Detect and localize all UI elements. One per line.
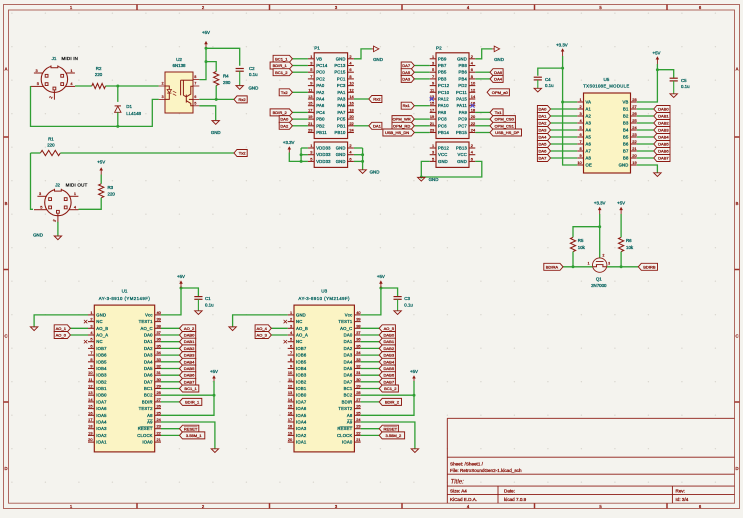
svg-text:GND: GND bbox=[370, 170, 380, 175]
svg-text:C: C bbox=[735, 334, 738, 339]
svg-text:1: 1 bbox=[310, 54, 312, 59]
svg-text:3: 3 bbox=[608, 262, 610, 266]
svg-text:Rev:: Rev: bbox=[676, 489, 685, 494]
svg-text:Sheet: /Sheet1 /: Sheet: /Sheet1 / bbox=[450, 461, 484, 466]
svg-text:17: 17 bbox=[88, 417, 92, 422]
svg-text:AO_B: AO_B bbox=[296, 326, 308, 331]
svg-text:PA5: PA5 bbox=[337, 103, 346, 108]
svg-text:9: 9 bbox=[90, 364, 92, 369]
svg-text:3.58M_1: 3.58M_1 bbox=[186, 433, 202, 438]
svg-text:GND: GND bbox=[429, 177, 439, 182]
svg-text:PA7: PA7 bbox=[337, 110, 346, 115]
svg-text:8: 8 bbox=[349, 74, 351, 79]
svg-text:DAB1: DAB1 bbox=[658, 114, 669, 119]
svg-text:U2: U2 bbox=[176, 57, 182, 62]
svg-text:PA8: PA8 bbox=[438, 110, 447, 115]
svg-text:PB15: PB15 bbox=[456, 130, 468, 135]
svg-text:DAB3: DAB3 bbox=[658, 128, 669, 133]
wire bbox=[361, 394, 414, 396]
svg-text:DA4: DA4 bbox=[144, 359, 153, 364]
svg-text:5: 5 bbox=[310, 67, 312, 72]
net label DAB1 bbox=[161, 341, 180, 343]
svg-text:Tx1: Tx1 bbox=[495, 110, 502, 115]
svg-text:B7: B7 bbox=[623, 149, 629, 154]
net label DA3 bbox=[414, 78, 429, 80]
no-connect bbox=[284, 320, 287, 323]
svg-text:+3.3V: +3.3V bbox=[556, 43, 568, 48]
svg-text:9: 9 bbox=[580, 153, 582, 158]
svg-text:5: 5 bbox=[40, 204, 42, 209]
svg-text:IOA6: IOA6 bbox=[96, 406, 107, 411]
wire bbox=[215, 86, 217, 100]
svg-text:CLOCK: CLOCK bbox=[137, 433, 152, 438]
net label DA4 bbox=[551, 136, 578, 138]
svg-text:GND: GND bbox=[619, 163, 629, 168]
svg-text:VA: VA bbox=[586, 100, 592, 105]
svg-text:DA2: DA2 bbox=[344, 346, 353, 351]
svg-text:23: 23 bbox=[356, 424, 360, 429]
svg-text:25: 25 bbox=[157, 410, 161, 415]
svg-text:DA4: DA4 bbox=[494, 77, 503, 82]
svg-text:Title:: Title: bbox=[451, 479, 465, 486]
svg-text:6: 6 bbox=[580, 132, 582, 137]
net label DAB3 bbox=[361, 354, 380, 356]
power +5V bbox=[213, 378, 215, 381]
svg-text:DAB4: DAB4 bbox=[384, 359, 395, 364]
connector P2 bbox=[436, 53, 469, 139]
svg-text:6: 6 bbox=[349, 156, 351, 161]
net label Rx1 bbox=[414, 105, 429, 107]
svg-text:GND: GND bbox=[373, 57, 383, 62]
net label DAB0 bbox=[361, 334, 380, 336]
wire bbox=[106, 85, 159, 87]
net label BC1_1 bbox=[161, 388, 180, 390]
wire bbox=[31, 86, 159, 126]
svg-text:IOB2: IOB2 bbox=[296, 379, 307, 384]
svg-text:IOA7: IOA7 bbox=[296, 399, 307, 404]
svg-text:22: 22 bbox=[471, 121, 475, 126]
svg-text:23: 23 bbox=[157, 424, 161, 429]
svg-text:39: 39 bbox=[356, 317, 360, 322]
connector P1 bbox=[314, 53, 347, 139]
svg-text:6: 6 bbox=[471, 156, 473, 161]
wire bbox=[354, 49, 372, 59]
svg-text:VCC: VCC bbox=[458, 152, 467, 157]
svg-text:B6: B6 bbox=[623, 142, 629, 147]
svg-text:38: 38 bbox=[157, 323, 161, 328]
svg-text:PA3: PA3 bbox=[337, 97, 346, 102]
svg-text:22: 22 bbox=[349, 121, 353, 126]
svg-text:IOA2: IOA2 bbox=[296, 433, 307, 438]
svg-text:PB3: PB3 bbox=[438, 76, 447, 81]
net label DAB4 bbox=[161, 361, 180, 363]
svg-text:33: 33 bbox=[356, 357, 360, 362]
resistor R6 bbox=[619, 237, 624, 251]
svg-text:AO_C: AO_C bbox=[140, 326, 152, 331]
svg-text:9: 9 bbox=[290, 364, 292, 369]
svg-text:R5: R5 bbox=[578, 238, 584, 243]
net label DAB7 bbox=[161, 381, 180, 383]
svg-text:3.58M_2: 3.58M_2 bbox=[386, 433, 402, 438]
svg-text:DA5: DA5 bbox=[538, 142, 547, 147]
svg-text:9: 9 bbox=[432, 81, 434, 86]
svg-text:MIDI OUT: MIDI OUT bbox=[66, 182, 88, 187]
svg-text:IOB2: IOB2 bbox=[96, 379, 107, 384]
svg-text:3: 3 bbox=[310, 150, 312, 155]
svg-text:38: 38 bbox=[356, 323, 360, 328]
wire bbox=[57, 222, 59, 236]
svg-text:220: 220 bbox=[108, 191, 116, 196]
svg-text:1: 1 bbox=[432, 143, 434, 148]
svg-text:AO_2: AO_2 bbox=[184, 326, 195, 331]
svg-text:PB13: PB13 bbox=[456, 146, 468, 151]
svg-text:GND: GND bbox=[336, 152, 346, 157]
svg-text:19: 19 bbox=[430, 114, 434, 119]
svg-text:DAB0: DAB0 bbox=[658, 107, 669, 112]
svg-text:2: 2 bbox=[471, 54, 473, 59]
svg-text:Vcc: Vcc bbox=[145, 312, 153, 317]
svg-text:IOA5: IOA5 bbox=[96, 413, 107, 418]
net label DA7 bbox=[551, 157, 578, 159]
svg-text:IOB4: IOB4 bbox=[96, 366, 107, 371]
svg-text:19: 19 bbox=[632, 160, 636, 165]
svg-text:2: 2 bbox=[162, 82, 164, 86]
transistor Q1 2N7000 bbox=[593, 258, 607, 272]
net label BDIR_2 bbox=[361, 401, 380, 403]
junction bbox=[420, 176, 423, 179]
svg-text:DA6: DA6 bbox=[144, 373, 153, 378]
wire bbox=[289, 153, 301, 162]
net label DAB7 bbox=[361, 381, 380, 383]
svg-text:AO_5: AO_5 bbox=[384, 326, 395, 331]
svg-text:18: 18 bbox=[88, 424, 92, 429]
svg-text:1: 1 bbox=[310, 143, 312, 148]
svg-text:GND: GND bbox=[249, 85, 259, 90]
ground bbox=[236, 86, 243, 90]
svg-text:2N7000: 2N7000 bbox=[591, 283, 607, 288]
net label BDIR_1 bbox=[161, 401, 180, 403]
svg-text:IOB0: IOB0 bbox=[96, 393, 107, 398]
resistor R3 bbox=[99, 184, 104, 198]
svg-text:IOB4: IOB4 bbox=[296, 366, 307, 371]
wire bbox=[161, 288, 181, 315]
svg-text:17: 17 bbox=[430, 107, 434, 112]
svg-text:2: 2 bbox=[349, 54, 351, 59]
net label OPM_CS0 bbox=[475, 118, 490, 120]
wire bbox=[300, 148, 302, 161]
resistor R1 bbox=[40, 150, 60, 155]
svg-text:VB: VB bbox=[623, 100, 629, 105]
svg-text:BDIR: BDIR bbox=[142, 399, 153, 404]
net label DAB4 bbox=[361, 361, 380, 363]
wire bbox=[301, 160, 308, 162]
wire bbox=[563, 101, 578, 103]
svg-text:P2: P2 bbox=[436, 46, 442, 51]
wire bbox=[361, 381, 414, 415]
net label OPM_RD bbox=[414, 125, 429, 127]
svg-text:GND: GND bbox=[33, 232, 43, 237]
svg-text:C: C bbox=[4, 334, 7, 339]
svg-text:29: 29 bbox=[356, 384, 360, 389]
svg-text:PC8: PC8 bbox=[438, 117, 447, 122]
wire bbox=[572, 252, 574, 267]
wire bbox=[421, 161, 482, 177]
svg-text:PA2: PA2 bbox=[316, 90, 325, 95]
svg-text:IOA7: IOA7 bbox=[96, 399, 107, 404]
net label DAB3 bbox=[161, 354, 180, 356]
svg-text:IOB5: IOB5 bbox=[96, 359, 107, 364]
PSG U1 AY-3-8910 bbox=[94, 305, 154, 452]
svg-text:DAB1: DAB1 bbox=[184, 339, 195, 344]
ground bbox=[195, 311, 202, 315]
capacitor C4 bbox=[534, 76, 542, 78]
net label BC1_2 bbox=[361, 388, 380, 390]
svg-text:File: RetroSoundGen2-1.kicad_s: File: RetroSoundGen2-1.kicad_sch bbox=[450, 468, 522, 473]
svg-text:Vcc: Vcc bbox=[345, 312, 353, 317]
svg-text:PC5: PC5 bbox=[337, 117, 346, 122]
wire bbox=[563, 266, 593, 268]
svg-text:LL4148: LL4148 bbox=[126, 111, 141, 116]
svg-text:KiCad E.D.A.: KiCad E.D.A. bbox=[450, 497, 477, 502]
svg-text:35: 35 bbox=[356, 343, 360, 348]
wire bbox=[381, 288, 398, 296]
ground bbox=[394, 311, 401, 315]
ground bbox=[30, 327, 37, 331]
net label DA0 bbox=[292, 118, 308, 120]
wire bbox=[161, 422, 215, 449]
svg-text:DAB4: DAB4 bbox=[184, 359, 195, 364]
svg-text:GND: GND bbox=[336, 146, 346, 151]
svg-text:22: 22 bbox=[157, 430, 161, 435]
svg-text:TEST2: TEST2 bbox=[139, 406, 154, 411]
svg-text:DAB2: DAB2 bbox=[184, 346, 195, 351]
svg-text:3: 3 bbox=[432, 61, 434, 66]
svg-text:DA5: DA5 bbox=[144, 366, 153, 371]
wire bbox=[117, 86, 119, 102]
svg-text:22: 22 bbox=[356, 430, 360, 435]
svg-text:1: 1 bbox=[74, 191, 76, 196]
svg-text:7: 7 bbox=[580, 139, 582, 144]
net label DAB5 bbox=[361, 368, 380, 370]
svg-text:220: 220 bbox=[47, 142, 55, 147]
junction bbox=[361, 153, 364, 156]
svg-text:VDD33: VDD33 bbox=[316, 159, 331, 164]
svg-text:PB1: PB1 bbox=[337, 123, 346, 128]
svg-text:3: 3 bbox=[290, 323, 292, 328]
svg-text:DA5: DA5 bbox=[402, 70, 411, 75]
svg-text:3: 3 bbox=[39, 191, 41, 196]
svg-text:32: 32 bbox=[157, 364, 161, 369]
svg-text:CLOCK: CLOCK bbox=[337, 433, 352, 438]
svg-text:28: 28 bbox=[157, 390, 161, 395]
svg-text:A: A bbox=[5, 67, 8, 72]
svg-text:IOB6: IOB6 bbox=[96, 353, 107, 358]
svg-text:27: 27 bbox=[356, 397, 360, 402]
svg-text:1: 1 bbox=[432, 54, 434, 59]
svg-text:28: 28 bbox=[356, 390, 360, 395]
junction bbox=[215, 98, 218, 101]
svg-text:37: 37 bbox=[356, 330, 360, 335]
wire bbox=[657, 70, 673, 78]
junction bbox=[213, 394, 216, 397]
svg-text:10k: 10k bbox=[626, 245, 634, 250]
svg-text:PA15: PA15 bbox=[456, 97, 467, 102]
svg-text:2: 2 bbox=[471, 143, 473, 148]
svg-text:R2: R2 bbox=[96, 66, 102, 71]
svg-text:0.1u: 0.1u bbox=[205, 303, 214, 308]
svg-text:DAB6: DAB6 bbox=[384, 373, 395, 378]
wire bbox=[620, 214, 622, 237]
svg-text:BC1_2: BC1_2 bbox=[275, 70, 288, 75]
svg-text:A9: A9 bbox=[347, 420, 353, 425]
svg-text:31: 31 bbox=[356, 370, 360, 375]
svg-text:13: 13 bbox=[308, 94, 312, 99]
svg-text:7: 7 bbox=[90, 350, 92, 355]
svg-text:RESET: RESET bbox=[337, 426, 352, 431]
svg-text:DAB7: DAB7 bbox=[658, 156, 669, 161]
svg-text:IOA3: IOA3 bbox=[296, 426, 307, 431]
wire bbox=[75, 85, 92, 87]
svg-text:IOB0: IOB0 bbox=[296, 393, 307, 398]
power flag GND bbox=[492, 48, 494, 50]
svg-text:Rx1: Rx1 bbox=[403, 103, 411, 108]
svg-text:21: 21 bbox=[308, 121, 312, 126]
junction bbox=[116, 85, 119, 88]
resistor R5 bbox=[570, 237, 575, 251]
svg-text:MIDI IN: MIDI IN bbox=[61, 56, 78, 61]
svg-text:5: 5 bbox=[432, 156, 434, 161]
svg-text:C2: C2 bbox=[249, 66, 255, 71]
svg-text:Rx2: Rx2 bbox=[238, 97, 246, 102]
wire bbox=[31, 153, 34, 209]
svg-text:23: 23 bbox=[632, 132, 636, 137]
svg-text:Rx2: Rx2 bbox=[373, 97, 381, 102]
net label DAB5 bbox=[161, 368, 180, 370]
svg-text:5: 5 bbox=[310, 156, 312, 161]
svg-text:B2: B2 bbox=[623, 114, 629, 119]
svg-text:IOB3: IOB3 bbox=[96, 373, 107, 378]
net label Tx2 bbox=[292, 91, 308, 93]
net label RESET bbox=[361, 428, 380, 430]
svg-text:1: 1 bbox=[70, 68, 72, 73]
net label DAB2 bbox=[637, 122, 654, 124]
svg-text:BDIR_2: BDIR_2 bbox=[385, 400, 400, 405]
svg-text:IOA3: IOA3 bbox=[96, 426, 107, 431]
svg-text:OPM_a0: OPM_a0 bbox=[492, 90, 509, 95]
net label DA2 bbox=[292, 125, 308, 127]
svg-text:A1: A1 bbox=[586, 107, 592, 112]
svg-text:B: B bbox=[5, 201, 8, 206]
junction bbox=[561, 67, 564, 70]
svg-text:DA6: DA6 bbox=[494, 70, 503, 75]
svg-text:VDD33: VDD33 bbox=[316, 152, 331, 157]
level shifter U5 TXS0108E_MODULE bbox=[584, 93, 631, 173]
svg-text:2: 2 bbox=[290, 317, 292, 322]
svg-text:17: 17 bbox=[288, 417, 292, 422]
svg-text:2: 2 bbox=[90, 317, 92, 322]
net label OPM_WR bbox=[414, 118, 429, 120]
svg-text:5: 5 bbox=[90, 337, 92, 342]
svg-text:DAB0: DAB0 bbox=[384, 333, 395, 338]
svg-text:PB11: PB11 bbox=[316, 130, 327, 135]
svg-text:23: 23 bbox=[308, 128, 312, 133]
svg-text:DA0: DA0 bbox=[144, 333, 153, 338]
capacitor C2 bbox=[236, 68, 244, 70]
junction bbox=[620, 265, 623, 268]
svg-text:26: 26 bbox=[632, 111, 636, 116]
net label AO_5 bbox=[361, 327, 380, 329]
svg-text:1: 1 bbox=[90, 310, 92, 315]
wire bbox=[117, 112, 119, 126]
svg-text:A9: A9 bbox=[147, 420, 153, 425]
wire bbox=[620, 252, 622, 267]
svg-text:NC: NC bbox=[96, 319, 102, 324]
net label RESET bbox=[161, 428, 180, 430]
svg-text:6: 6 bbox=[194, 95, 196, 99]
svg-text:8: 8 bbox=[90, 357, 92, 362]
svg-text:PC15: PC15 bbox=[334, 70, 346, 75]
power +5V bbox=[656, 59, 658, 64]
svg-text:PB4: PB4 bbox=[458, 76, 467, 81]
svg-text:IOA6: IOA6 bbox=[296, 406, 307, 411]
svg-text:1: 1 bbox=[290, 310, 292, 315]
svg-text:6: 6 bbox=[290, 343, 292, 348]
svg-text:18: 18 bbox=[471, 107, 475, 112]
svg-text:+5V: +5V bbox=[97, 159, 105, 164]
net label Tx2 bbox=[234, 150, 247, 157]
svg-text:21: 21 bbox=[157, 437, 161, 442]
svg-text:USB_HS_DP: USB_HS_DP bbox=[495, 130, 519, 135]
net label Rx2 bbox=[354, 98, 369, 100]
capacitor C1 bbox=[194, 296, 202, 298]
svg-text:TEST1: TEST1 bbox=[338, 319, 353, 324]
net label BC1_2 bbox=[292, 71, 308, 73]
power +5V bbox=[413, 378, 415, 381]
svg-text:25: 25 bbox=[632, 118, 636, 123]
svg-text:+3.3V: +3.3V bbox=[594, 200, 606, 205]
net label DAB0 bbox=[161, 334, 180, 336]
svg-text:DA6: DA6 bbox=[344, 373, 353, 378]
svg-text:USB_HS_DN: USB_HS_DN bbox=[385, 130, 409, 135]
svg-text:B: B bbox=[736, 201, 739, 206]
no-connect bbox=[284, 340, 287, 343]
svg-text:PC10: PC10 bbox=[438, 90, 450, 95]
net label Rx2 bbox=[234, 96, 247, 103]
junction bbox=[300, 160, 303, 163]
svg-text:IOA2: IOA2 bbox=[96, 433, 107, 438]
svg-text:Size: A4: Size: A4 bbox=[450, 489, 467, 494]
svg-text:Date:: Date: bbox=[504, 489, 515, 494]
svg-text:PB6: PB6 bbox=[458, 70, 467, 75]
svg-text:DAB7: DAB7 bbox=[184, 379, 195, 384]
net label AO_3 bbox=[271, 334, 287, 336]
svg-text:27: 27 bbox=[157, 397, 161, 402]
net label DAB1 bbox=[361, 341, 380, 343]
svg-text:BDIR_1: BDIR_1 bbox=[185, 400, 200, 405]
svg-text:19: 19 bbox=[308, 114, 312, 119]
svg-text:DA1: DA1 bbox=[344, 339, 353, 344]
svg-text:3: 3 bbox=[36, 68, 38, 73]
svg-text:R4: R4 bbox=[223, 74, 229, 79]
svg-text:DAB4: DAB4 bbox=[658, 135, 669, 140]
wire bbox=[161, 381, 214, 415]
svg-text:36: 36 bbox=[157, 337, 161, 342]
svg-text:DAB6: DAB6 bbox=[658, 149, 669, 154]
svg-text:PC11: PC11 bbox=[456, 90, 467, 95]
wire bbox=[199, 98, 234, 100]
svg-text:PA11: PA11 bbox=[457, 103, 468, 108]
net label DAB7 bbox=[637, 157, 654, 159]
